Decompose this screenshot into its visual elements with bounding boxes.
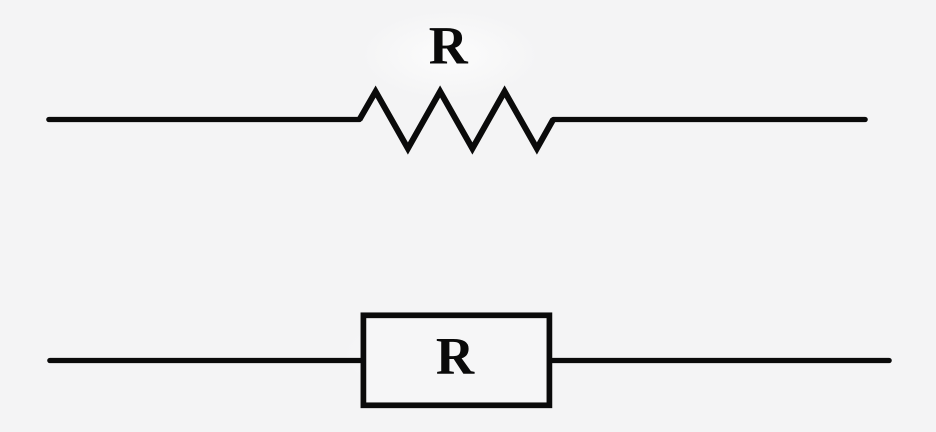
svg-text:R: R bbox=[429, 16, 469, 76]
resistor R1 zigzag body bbox=[360, 92, 554, 149]
resistor R2 box body bbox=[363, 315, 549, 405]
wire: top-right lead bbox=[553, 117, 865, 122]
svg-text:R: R bbox=[436, 328, 475, 386]
wire: bottom-right lead bbox=[552, 358, 889, 363]
wire: bottom-left lead bbox=[50, 358, 361, 363]
wire: top-left lead bbox=[49, 117, 360, 122]
